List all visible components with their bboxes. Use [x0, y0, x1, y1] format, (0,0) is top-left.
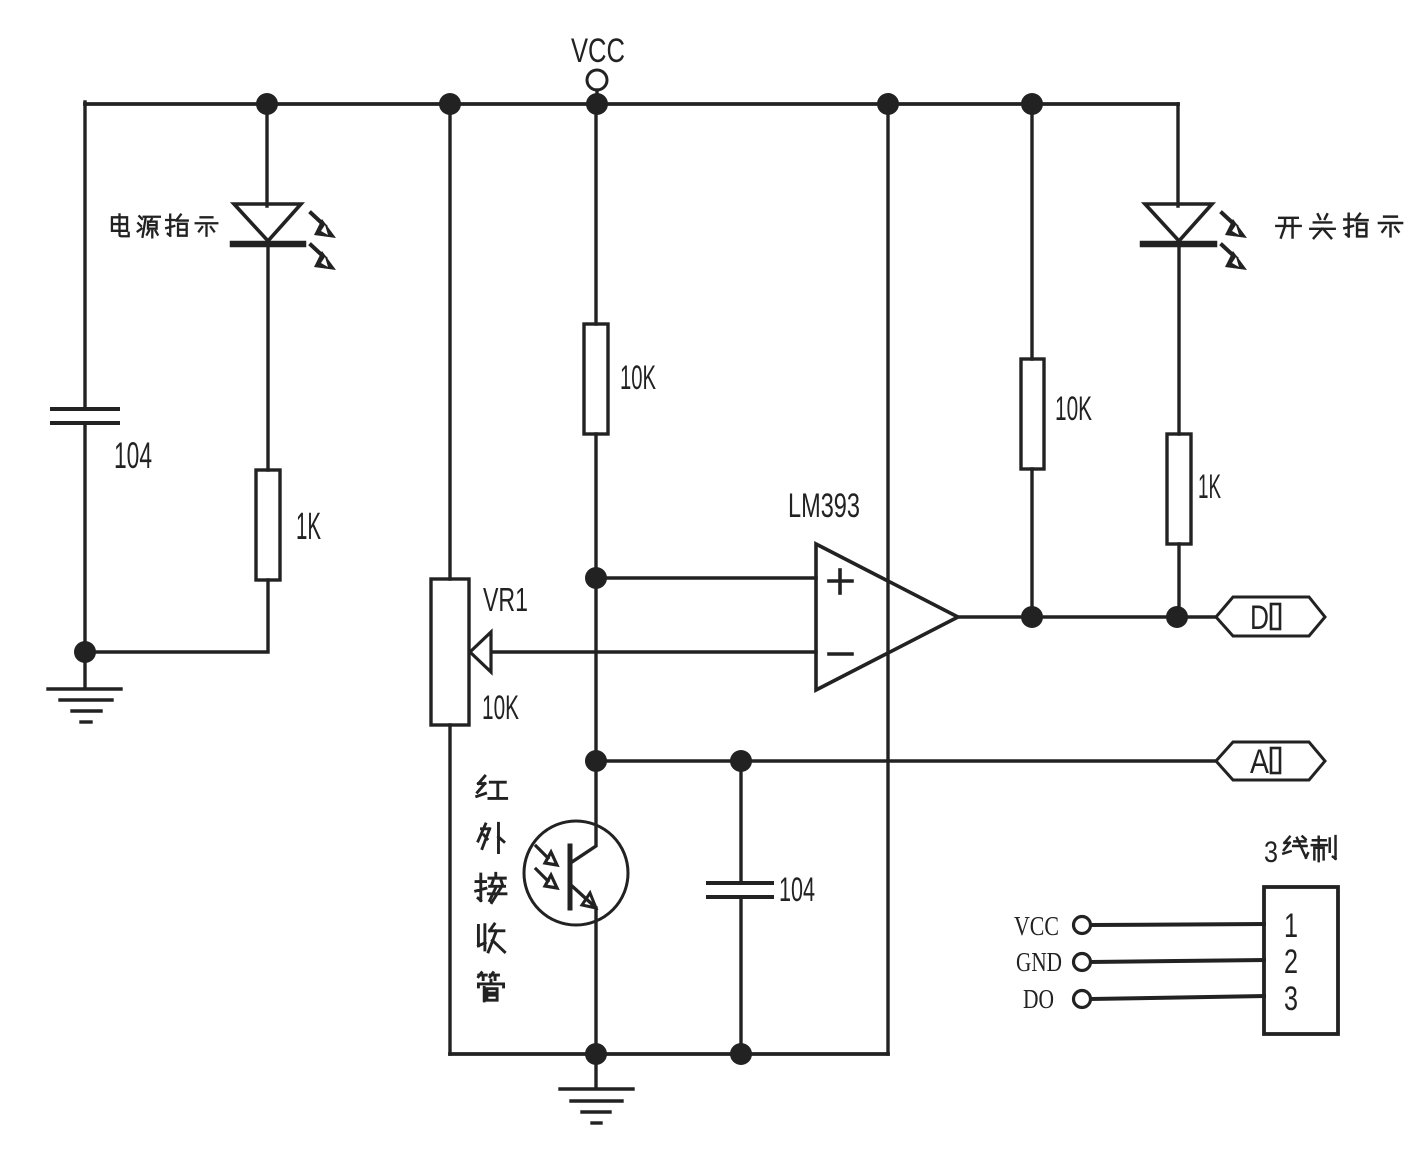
capacitor C1 — [52, 409, 118, 423]
junction dot bottom/C2 — [730, 1043, 752, 1065]
wire node B to node C — [594, 578, 597, 761]
wire rail to VR1 — [448, 104, 451, 579]
U1 plus sign — [829, 570, 852, 593]
wire node B to U1 plus input — [596, 576, 816, 579]
J1 GND pin circle — [1074, 954, 1091, 971]
connector J1 title 3xianzhi (3-wire) — [1264, 836, 1336, 869]
phototransistor Q1 circle — [524, 821, 628, 925]
svg-text:1: 1 — [1284, 907, 1298, 945]
node D junction dot (C2 top) — [730, 750, 752, 772]
wire rail to D1 — [265, 104, 268, 206]
svg-text:GND: GND — [1016, 947, 1062, 977]
resistor R2 — [584, 324, 608, 434]
wire D2 to R4 — [1177, 247, 1180, 434]
junction dot rail/VR1 — [439, 93, 461, 115]
svg-text:DO: DO — [1023, 984, 1054, 1014]
junction dot rail/U1 power — [877, 93, 899, 115]
AO output flag — [1216, 742, 1325, 780]
svg-text:3: 3 — [1264, 836, 1278, 869]
junction dot rail/D1 — [256, 93, 278, 115]
connector J1 body — [1264, 887, 1338, 1034]
Q1 emitter wire with arrow — [572, 886, 594, 906]
svg-text:LM393: LM393 — [788, 487, 860, 525]
svg-text:VR1: VR1 — [483, 581, 528, 618]
wire node D to C2 — [739, 761, 742, 883]
J1 DO pin circle — [1074, 991, 1091, 1008]
wire VR1 to bottom rail — [448, 725, 451, 1054]
Q1 incident light arrows — [536, 846, 557, 888]
J1 VCC pin circle — [1074, 917, 1091, 934]
wire rail to C1 — [83, 102, 86, 409]
wire node C to AO flag — [596, 759, 1216, 762]
wire bottom rail — [450, 1052, 888, 1056]
U1 minus sign — [829, 652, 852, 656]
wire R1 to node A — [85, 580, 268, 652]
wire Q1 emitter to bottom rail — [594, 908, 597, 1054]
svg-text:10K: 10K — [482, 689, 519, 727]
svg-text:2: 2 — [1284, 943, 1298, 981]
svg-text:3: 3 — [1284, 980, 1298, 1018]
svg-text:10K: 10K — [1055, 390, 1092, 428]
LED D1 power indicator — [233, 204, 336, 270]
wire rail corner to D2 — [1176, 104, 1179, 206]
node B junction dot — [585, 567, 607, 589]
wire top rail — [85, 102, 1178, 106]
wire rail to R3 — [1030, 104, 1033, 359]
svg-text:A: A — [1250, 743, 1269, 781]
wire VR1 wiper to U1 minus input — [487, 650, 816, 653]
wire D1 to R1 — [266, 247, 269, 470]
Q1 collector wire — [572, 761, 596, 862]
wire J1 DO pin 3 — [1091, 996, 1264, 999]
wire J1 VCC pin 1 — [1091, 924, 1264, 925]
wire R2 to node B — [594, 434, 597, 578]
svg-text:104: 104 — [114, 435, 152, 476]
wire U1 power drop (rail to bottom rail) — [886, 104, 889, 1054]
junction dot output/R3 — [1021, 606, 1043, 628]
LED D2 switch indicator — [1143, 204, 1247, 270]
svg-text:D: D — [1250, 599, 1269, 637]
svg-text:1K: 1K — [1198, 468, 1221, 506]
node C junction dot — [585, 750, 607, 772]
wire rail to R2 — [594, 104, 597, 324]
svg-text:VCC: VCC — [571, 32, 625, 70]
node A junction dot — [74, 641, 96, 663]
DO flag tofu box — [1271, 604, 1280, 629]
ground GND2 — [560, 1054, 633, 1123]
svg-text:1K: 1K — [296, 506, 321, 548]
svg-text:104: 104 — [779, 871, 815, 909]
AO flag tofu box — [1271, 748, 1280, 773]
junction dot rail/R3 — [1021, 93, 1043, 115]
wire C1 to node A — [83, 423, 86, 652]
junction dot output/R4 — [1166, 606, 1188, 628]
resistor R3 — [1021, 359, 1044, 469]
VR1 wiper arrow — [470, 632, 491, 672]
label dianyuanzhishi (power indicator) — [112, 214, 217, 237]
Q1 base bar — [568, 846, 573, 908]
wire VCC stem — [595, 90, 598, 104]
svg-text:VCC: VCC — [1014, 911, 1059, 941]
resistor R1 — [256, 470, 280, 580]
label kaiguanzhishi (switch indicator) — [1276, 214, 1402, 238]
label hongwaijieshouguan (IR receiver) — [476, 776, 507, 1001]
wire R3 to output node — [1030, 469, 1033, 617]
VCC terminal circle — [587, 70, 607, 90]
DO output flag — [1216, 597, 1325, 636]
capacitor C2 — [708, 883, 772, 897]
op-amp U1 LM393 — [816, 544, 958, 690]
ground GND1 — [48, 652, 121, 722]
potentiometer VR1 body — [431, 579, 469, 725]
junction dot bottom/Q1 — [585, 1043, 607, 1065]
wire R4 to output node — [1177, 544, 1180, 617]
wire J1 GND pin 2 — [1091, 960, 1264, 962]
resistor R4 — [1167, 434, 1191, 544]
junction dot rail/R2 (VCC node) — [586, 93, 608, 115]
wire U1 output — [958, 615, 1216, 618]
wire C2 to bottom rail — [739, 897, 742, 1054]
svg-text:10K: 10K — [620, 359, 656, 397]
